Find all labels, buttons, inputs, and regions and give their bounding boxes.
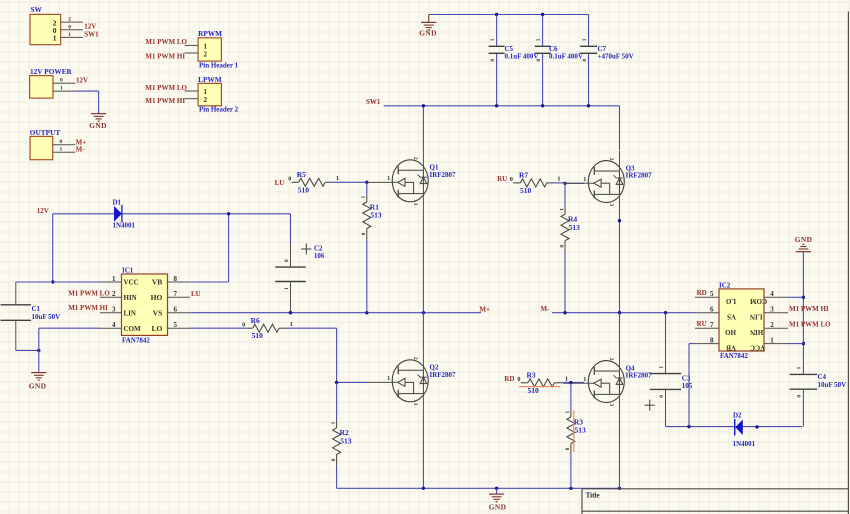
svg-text:FAN7842: FAN7842 [720, 352, 748, 360]
svg-text:0: 0 [282, 259, 288, 262]
svg-text:513: 513 [569, 223, 581, 232]
svg-text:SW1: SW1 [366, 98, 381, 106]
junction [618, 487, 621, 490]
junction [37, 349, 40, 352]
svg-text:1: 1 [387, 175, 390, 182]
wire M- to Q4 drain [619, 313, 621, 351]
resistor R3 [521, 382, 528, 384]
svg-text:0: 0 [510, 176, 513, 183]
svg-text:1: 1 [565, 376, 568, 383]
junction [422, 104, 425, 107]
svg-text:OUTPUT: OUTPUT [30, 128, 61, 137]
wire C5 leads [496, 15, 498, 47]
svg-text:LIN: LIN [124, 309, 136, 317]
title block [582, 489, 849, 514]
wire Q4 source to gnd rail [619, 413, 621, 489]
svg-text:0: 0 [288, 176, 291, 183]
svg-text:1: 1 [558, 208, 564, 211]
svg-text:513: 513 [370, 211, 382, 220]
svg-text:M1 PWM LO: M1 PWM LO [145, 38, 187, 46]
svg-text:COM: COM [124, 325, 142, 333]
junction [495, 13, 498, 16]
transistor Q2 [367, 350, 456, 412]
connector OUTPUT [30, 136, 53, 159]
svg-text:0: 0 [60, 78, 63, 84]
wire Q3 source to M- [619, 213, 621, 313]
wire VCC row [16, 281, 100, 283]
svg-text:4: 4 [770, 290, 774, 298]
svg-text:1: 1 [770, 336, 774, 344]
junction [618, 219, 621, 222]
svg-text:3: 3 [412, 203, 418, 206]
svg-text:0: 0 [360, 233, 366, 236]
svg-text:2: 2 [412, 357, 418, 360]
svg-text:RD: RD [697, 289, 707, 297]
svg-text:0: 0 [580, 59, 586, 62]
svg-text:2: 2 [608, 358, 614, 361]
svg-text:COM: COM [750, 297, 768, 305]
svg-text:HIN: HIN [750, 328, 763, 336]
wire R4 bottom [564, 252, 566, 313]
svg-text:M1 PWM HI: M1 PWM HI [145, 53, 185, 61]
wire IC2 COM [788, 296, 803, 298]
svg-text:5: 5 [174, 321, 178, 329]
junction [422, 487, 425, 490]
junction [422, 311, 425, 314]
svg-text:12V: 12V [37, 207, 49, 215]
capacitor C5 [489, 45, 505, 47]
wire gnd to COM/VCC and C4 [802, 252, 804, 375]
wire M- rail [552, 312, 695, 314]
highlight under R3 [519, 386, 560, 388]
svg-text:10uF 50V: 10uF 50V [32, 313, 61, 321]
wire bottom-right rail [666, 426, 803, 428]
svg-text:Pin Header 2: Pin Header 2 [199, 106, 239, 114]
svg-text:IRF2807: IRF2807 [430, 171, 457, 179]
ground [421, 21, 436, 23]
resistor R6 [246, 327, 253, 329]
svg-text:1: 1 [564, 411, 570, 414]
svg-text:+470uF 50V: +470uF 50V [598, 52, 634, 60]
junction [618, 311, 621, 314]
wire R3 to Q4 gate [561, 382, 563, 384]
ground [796, 251, 811, 253]
svg-text:3: 3 [608, 403, 614, 406]
transistor Q4 [563, 351, 652, 413]
capacitor C2 branch [290, 243, 292, 267]
junction [541, 104, 544, 107]
svg-text:0: 0 [242, 321, 245, 328]
junction [802, 296, 805, 299]
svg-text:513: 513 [575, 426, 587, 435]
junction [569, 487, 572, 490]
svg-text:1: 1 [387, 375, 390, 382]
junction [495, 104, 498, 107]
wire Q2 source to gnd rail [422, 412, 424, 489]
svg-text:6: 6 [174, 306, 178, 314]
svg-text:7: 7 [710, 321, 714, 329]
svg-text:FAN7842: FAN7842 [122, 336, 150, 344]
wire M- to C3 [665, 313, 667, 365]
diode D2 [735, 419, 743, 436]
svg-text:0: 0 [534, 59, 540, 62]
svg-text:M1 PWM HI: M1 PWM HI [145, 97, 185, 105]
svg-text:12V: 12V [84, 23, 96, 31]
svg-text:R5: R5 [297, 170, 306, 179]
svg-text:10uF 50V: 10uF 50V [818, 381, 847, 389]
wire Q1 source to M+ [422, 212, 424, 313]
ground [31, 372, 46, 374]
svg-text:12V POWER: 12V POWER [30, 67, 73, 76]
svg-text:1: 1 [534, 38, 540, 41]
transistor Q3 [563, 151, 652, 213]
svg-text:M-: M- [76, 146, 86, 154]
svg-text:GND: GND [89, 121, 107, 130]
svg-text:1: 1 [282, 287, 288, 290]
wire D1 cathode to VB and C2 [122, 213, 291, 215]
svg-text:0: 0 [558, 245, 564, 248]
svg-text:VB: VB [152, 278, 162, 287]
svg-text:2: 2 [412, 157, 418, 160]
pin header LPWM [198, 83, 221, 105]
wire power gnd [75, 90, 98, 92]
junction [495, 487, 498, 490]
svg-text:3: 3 [112, 306, 116, 314]
wire SW1 rail [384, 105, 620, 107]
svg-text:1: 1 [112, 275, 116, 283]
svg-text:R6: R6 [251, 316, 260, 325]
resistor R2 [336, 421, 338, 428]
wire 12V to VCC [52, 214, 54, 282]
svg-text:8: 8 [710, 336, 714, 344]
capacitor C1 [1, 304, 32, 306]
svg-text:M-: M- [541, 305, 551, 313]
svg-text:RD: RD [504, 375, 514, 383]
svg-text:0: 0 [488, 59, 494, 62]
svg-text:GND: GND [795, 235, 813, 244]
wire R2 bottom [336, 465, 338, 488]
junction [289, 311, 292, 314]
svg-text:M+: M+ [479, 305, 490, 313]
svg-text:1: 1 [60, 147, 63, 153]
wire C1 to gnd node [16, 349, 39, 351]
resistor R5 [292, 181, 299, 183]
svg-text:0: 0 [329, 459, 335, 462]
svg-text:105: 105 [682, 382, 693, 390]
transistor Q1 [367, 150, 456, 212]
svg-text:IRF2807: IRF2807 [626, 372, 653, 380]
wire bottom gnd rail [337, 487, 620, 489]
svg-text:IRF2807: IRF2807 [626, 172, 653, 180]
wire R4 top [564, 183, 566, 207]
svg-text:M1 PWM HI: M1 PWM HI [789, 305, 829, 313]
capacitor C6 [535, 45, 551, 47]
resistor R7 [513, 182, 520, 184]
svg-text:106: 106 [314, 252, 325, 260]
junction [563, 182, 566, 185]
svg-text:1: 1 [580, 38, 586, 41]
svg-text:1: 1 [657, 366, 663, 369]
wire R1 bottom [366, 240, 368, 313]
junction [365, 311, 368, 314]
capacitor C7 [580, 45, 597, 47]
svg-text:VB: VB [726, 343, 736, 351]
svg-text:0.1uF 400V: 0.1uF 400V [505, 52, 539, 60]
svg-text:R7: R7 [519, 171, 528, 180]
svg-text:M1 PWM LO: M1 PWM LO [145, 84, 187, 92]
ground [489, 493, 504, 495]
wire LO to R6 [190, 327, 246, 329]
junction [51, 280, 54, 283]
svg-text:0.1uF 400V: 0.1uF 400V [549, 52, 583, 60]
svg-text:1: 1 [360, 196, 366, 199]
svg-text:1N4001: 1N4001 [113, 221, 136, 229]
pin header RPWM [198, 38, 221, 61]
svg-text:513: 513 [340, 437, 352, 446]
resistor R1 [366, 195, 368, 202]
svg-text:2: 2 [608, 158, 614, 161]
wire R3 vertical top [570, 383, 572, 410]
svg-text:C1: C1 [32, 305, 41, 313]
svg-text:M1 PWM HI: M1 PWM HI [68, 304, 108, 312]
wire R5 to Q1 gate [332, 181, 367, 183]
svg-text:SW: SW [30, 5, 42, 14]
svg-text:LO: LO [151, 324, 162, 333]
svg-text:8: 8 [174, 275, 178, 283]
op-amp IC1 FAN7842 [100, 267, 190, 345]
wire C7 leads [588, 15, 590, 47]
svg-text:IRF2807: IRF2807 [430, 371, 457, 379]
svg-text:2: 2 [204, 96, 208, 104]
svg-text:2: 2 [770, 321, 774, 329]
svg-text:3: 3 [770, 306, 774, 314]
svg-text:2: 2 [68, 17, 71, 23]
wire gnd stub [496, 488, 498, 494]
junction [563, 311, 566, 314]
wire R1 top [366, 182, 368, 195]
svg-text:VCC: VCC [124, 279, 139, 287]
connector SW [30, 14, 61, 44]
wire top GND rail [429, 14, 589, 16]
svg-text:1: 1 [290, 321, 293, 328]
junction [335, 381, 338, 384]
svg-text:510: 510 [520, 186, 532, 195]
svg-text:12V: 12V [76, 76, 88, 84]
svg-text:LU: LU [191, 290, 201, 298]
svg-text:VS: VS [153, 308, 163, 317]
svg-text:SW1: SW1 [84, 30, 99, 38]
wire R7 to Q3 gate [554, 182, 564, 184]
svg-text:3: 3 [412, 403, 418, 406]
svg-text:1: 1 [795, 367, 801, 370]
svg-text:1: 1 [60, 86, 63, 92]
junction [227, 212, 230, 215]
svg-text:IC2: IC2 [719, 281, 731, 289]
svg-text:Pin Header 1: Pin Header 1 [199, 61, 239, 69]
svg-text:1: 1 [68, 32, 71, 38]
svg-text:2: 2 [204, 50, 208, 58]
junction [541, 13, 544, 16]
svg-text:LIN: LIN [750, 313, 762, 321]
svg-text:0: 0 [517, 376, 520, 383]
junction [802, 342, 805, 345]
capacitor C2 [275, 266, 305, 268]
svg-text:1: 1 [329, 422, 335, 425]
wire R2 top [336, 382, 338, 420]
wire C6 leads [542, 15, 544, 47]
svg-text:1: 1 [488, 38, 494, 41]
svg-text:1: 1 [583, 176, 586, 183]
svg-text:1N4001: 1N4001 [733, 440, 756, 448]
wire IC2 VCC [788, 343, 803, 345]
wire M+ to Q2 drain [422, 313, 424, 351]
svg-text:M1 PWM LO: M1 PWM LO [789, 321, 831, 329]
svg-text:6: 6 [710, 306, 714, 314]
svg-text:R3: R3 [527, 371, 536, 380]
wire IC2 pin8 down [689, 343, 695, 345]
svg-text:1: 1 [204, 42, 208, 50]
wire R3 vertical bottom [570, 455, 572, 489]
svg-text:M1 PWM LO: M1 PWM LO [68, 289, 110, 297]
svg-text:0: 0 [60, 139, 63, 145]
svg-text:1: 1 [557, 176, 560, 183]
svg-text:3: 3 [608, 203, 614, 206]
resistor R4 [564, 207, 566, 214]
diode D1 [114, 205, 122, 223]
svg-text:510: 510 [252, 331, 264, 340]
svg-text:0: 0 [68, 24, 71, 30]
op-amp IC2 FAN7842 [695, 281, 788, 360]
svg-text:D1: D1 [113, 199, 122, 207]
svg-text:0: 0 [795, 395, 801, 398]
svg-text:RPWM: RPWM [198, 29, 222, 38]
wire COM to gnd [39, 327, 100, 329]
svg-text:LPWM: LPWM [198, 75, 222, 84]
svg-text:RU: RU [497, 175, 507, 183]
junction [755, 425, 758, 428]
junction [365, 181, 368, 184]
svg-text:0: 0 [564, 448, 570, 451]
capacitor C3 [650, 373, 681, 375]
svg-text:1: 1 [53, 34, 57, 43]
junction [687, 425, 690, 428]
svg-text:GND: GND [29, 382, 47, 391]
junction [587, 104, 590, 107]
resistor R3 [570, 410, 572, 417]
svg-text:4: 4 [112, 321, 116, 329]
svg-text:510: 510 [298, 185, 310, 194]
svg-text:2: 2 [112, 290, 116, 298]
svg-text:GND: GND [489, 503, 507, 512]
svg-text:7: 7 [174, 290, 178, 298]
sheet border [847, 12, 849, 514]
svg-text:1: 1 [204, 88, 208, 96]
svg-text:1: 1 [336, 175, 339, 182]
svg-text:HO: HO [151, 293, 163, 302]
junction [569, 381, 572, 384]
svg-text:VCC: VCC [750, 343, 765, 351]
svg-text:HIN: HIN [124, 294, 137, 302]
svg-text:LO: LO [725, 297, 736, 305]
connector 12V POWER [30, 76, 53, 99]
ground [91, 113, 106, 115]
wire R6 to Q2 gate [286, 327, 337, 329]
svg-text:D2: D2 [733, 412, 742, 420]
svg-text:VS: VS [727, 313, 736, 321]
svg-text:IC1: IC1 [122, 267, 134, 275]
highlight beside R3 [573, 411, 575, 453]
capacitor C4 [790, 373, 818, 375]
svg-text:GND: GND [419, 29, 437, 38]
svg-text:LU: LU [275, 179, 285, 187]
svg-text:Title: Title [586, 491, 600, 499]
svg-text:0: 0 [657, 395, 663, 398]
junction [664, 311, 667, 314]
svg-text:HO: HO [725, 328, 736, 336]
svg-text:5: 5 [710, 290, 714, 298]
svg-text:RU: RU [697, 320, 707, 328]
wire M+ rail [190, 312, 481, 314]
